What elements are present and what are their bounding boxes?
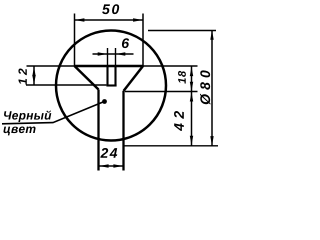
dim 6 left ext line (107, 48, 109, 66)
dim 6 text (122, 38, 129, 48)
dim 6 left arrow (points right) (98, 52, 108, 55)
dim 18 up arrow (190, 67, 193, 77)
channel left side / 24 ext line (97, 90, 99, 171)
dim 50 right ext line (142, 14, 144, 67)
dim 50 left arrow (75, 18, 85, 21)
dim 6 line (93, 53, 134, 55)
channel right side / 24 ext line (122, 91, 124, 171)
dim 24 right arrow (113, 164, 123, 167)
dim 42 down arrow (190, 136, 193, 146)
dim 50 left ext line (74, 14, 76, 67)
dim 18 down arrow (190, 82, 193, 92)
dim 42 text (174, 111, 184, 131)
funnel right slant edge (124, 66, 144, 91)
dim 6 right ext line (115, 48, 117, 66)
dim 12 text (18, 68, 26, 84)
leader end dot (102, 99, 107, 104)
dim 12 down arrow (32, 75, 35, 85)
dim 50 line (75, 19, 144, 21)
slot bottom edge (106, 84, 116, 86)
dim 12 line (33, 66, 35, 85)
dim phi80 down arrow (210, 136, 213, 146)
dim 42 up arrow (190, 92, 193, 102)
dim 12 up arrow (32, 67, 35, 77)
dim 24 left arrow (99, 164, 109, 167)
dim phi80 text (200, 70, 210, 104)
dim 6 right arrow (points left) (116, 52, 126, 55)
dim 24 line (99, 165, 124, 167)
dim 12 top ext line / chord extension (27, 65, 75, 67)
slot left side (106, 66, 108, 86)
note text line 2 (tsvet) (3, 127, 35, 136)
slot right side (114, 66, 116, 86)
dim 24 text (100, 148, 117, 158)
leader line with underline of note (2, 102, 103, 124)
dim phi80 line (211, 30, 213, 146)
note text line 1 (Cherny) (4, 111, 51, 122)
dim 18 line (191, 66, 193, 92)
dim 50 text (102, 4, 119, 14)
dim phi80 up arrow (210, 30, 213, 40)
dim phi80 top ext line (148, 30, 216, 32)
dim 18 top ext line / chord extension right (143, 65, 198, 67)
dim phi80/42 shared bottom ext line (125, 145, 219, 147)
circle body outline Ø80 (56, 31, 166, 141)
dim 50 right arrow (133, 18, 143, 21)
dim 18 bottom ext line (125, 91, 198, 93)
part top chord edge (75, 65, 144, 68)
dim 42 line (191, 92, 193, 146)
white paper background (0, 0, 221, 178)
funnel left slant edge (75, 66, 99, 90)
dim 12 bottom ext line to slot bottom (26, 84, 106, 86)
dim 18 text (178, 71, 186, 84)
